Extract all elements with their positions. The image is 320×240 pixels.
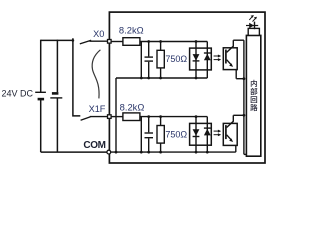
resistor R2 750Ω — [157, 42, 164, 79]
svg-text:8.2kΩ: 8.2kΩ — [119, 24, 144, 35]
phototransistor Q1 — [226, 46, 233, 67]
diode U1b (cathode up) — [204, 53, 211, 60]
resistor R3 8.2kΩ — [123, 113, 140, 121]
wire optocoupler U2 LED leg 1 — [195, 117, 197, 153]
wire Q1 emitter to output bus — [236, 78, 244, 80]
wire battery B2 lower lead — [56, 98, 58, 152]
wire branch 1 bus to COM — [115, 78, 117, 152]
svg-text:8.2kΩ: 8.2kΩ — [120, 102, 145, 113]
phototransistor Q2 box — [223, 123, 237, 145]
wire output bus into internal circuit — [244, 153, 247, 155]
wire internal COM bus — [111, 151, 236, 153]
wire optocoupler U1 LED leg 2 — [206, 42, 208, 79]
battery B1 — [35, 92, 46, 99]
wire Q2 collector to output bus — [233, 114, 244, 116]
wire optocoupler U2 LED leg 2 — [206, 117, 208, 153]
wire COM return — [41, 151, 107, 153]
wire terminal X0 to resistor R1 — [111, 41, 123, 43]
optocoupler U1 LED box — [190, 48, 212, 70]
capacitor C1 — [145, 42, 154, 79]
wire node A rail (R1 to optocoupler) — [140, 41, 207, 43]
optocoupler U2 light arrows — [214, 130, 222, 137]
PLC module boundary box — [109, 12, 265, 163]
terminal X1F — [108, 115, 112, 119]
label char 回 — [251, 96, 257, 103]
wire branch 1 bottom bus — [116, 77, 207, 79]
wire X1F feed — [73, 38, 80, 116]
wire supply rail — [41, 39, 73, 41]
wire output bus vertical — [243, 40, 245, 154]
diode U2b (cathode up) — [204, 128, 211, 135]
terminal COM — [107, 150, 111, 154]
phototransistor Q2 — [226, 121, 233, 142]
svg-text:X1F: X1F — [89, 104, 106, 114]
wire battery B1 lower lead — [40, 99, 42, 152]
phototransistor Q1 box — [223, 48, 237, 70]
wire Q2 emitter to COM bus — [235, 145, 237, 152]
wire R1 node to bus drop — [140, 42, 142, 79]
wire switch S2 to terminal X1F — [90, 116, 108, 118]
svg-text:750Ω: 750Ω — [165, 129, 187, 139]
optocoupler U1 light arrows — [214, 55, 222, 62]
wire battery B2 upper lead — [56, 40, 58, 92]
resistor R1 8.2kΩ — [123, 38, 140, 46]
wire optocoupler U1 LED leg 1 — [195, 42, 197, 79]
resistor R4 750Ω — [157, 117, 164, 153]
switch S2 blade (X1F input) — [81, 117, 91, 121]
LED indicator diode — [246, 22, 258, 30]
wire node B rail (R3 to optocoupler) — [140, 116, 207, 118]
diode U2a (cathode down) — [193, 129, 200, 136]
svg-text:750Ω: 750Ω — [165, 54, 187, 64]
diode U1a (cathode down) — [193, 54, 200, 61]
LED indicator package box — [248, 28, 259, 35]
svg-text:COM: COM — [83, 140, 105, 151]
label char 路 — [250, 104, 257, 111]
wire Q1 collector riser — [232, 40, 234, 46]
continuation squiggle (X1 - X1E omitted) — [92, 50, 100, 99]
svg-text:X0: X0 — [93, 29, 104, 39]
wire battery B1 upper lead — [40, 40, 42, 93]
capacitor C2 — [145, 117, 154, 153]
internal circuit box 内部回路 — [246, 35, 260, 156]
terminal X0 — [108, 40, 112, 44]
label char 部 — [250, 88, 257, 95]
svg-text:24V DC: 24V DC — [2, 88, 34, 98]
wire R3 node to COM bus drop — [140, 117, 142, 153]
wire terminal X1F to resistor R3 — [111, 116, 123, 118]
wire Q1 emitter drop — [235, 69, 237, 79]
LED emission arrows — [249, 15, 257, 22]
label char 内 — [251, 80, 257, 87]
optocoupler U2 LED box — [190, 123, 212, 145]
wire switch S1 to terminal X0 — [90, 40, 108, 42]
battery B2 — [50, 93, 62, 98]
switch S1 blade (X0 input) — [80, 40, 91, 44]
wire Q1 collector to output bus — [233, 39, 244, 41]
wire Q2 collector riser — [232, 115, 234, 121]
